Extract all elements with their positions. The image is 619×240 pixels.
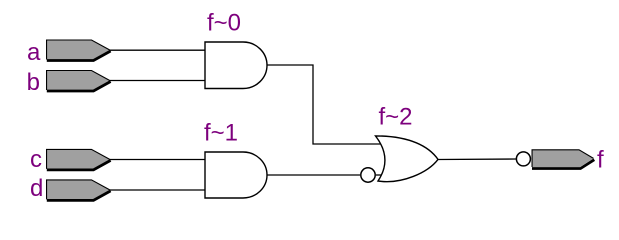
svg-text:c: c [30, 146, 42, 173]
svg-text:f~2: f~2 [379, 104, 413, 131]
input pin c [47, 149, 111, 170]
wire f~2 to output bubble [438, 158, 517, 161]
svg-text:b: b [27, 69, 40, 96]
svg-text:f~0: f~0 [207, 10, 241, 37]
input pin b [47, 71, 111, 92]
wire a to f~0 [110, 49, 205, 51]
output pin f [532, 150, 594, 169]
and gate f~0 [205, 42, 267, 89]
inversion bubble on f~2 lower input [361, 168, 375, 182]
wire d to f~1 [110, 189, 205, 191]
or gate f~2 [376, 136, 439, 182]
svg-text:a: a [27, 39, 41, 66]
wire f~1 to input bubble [267, 174, 360, 176]
and gate f~1 [205, 152, 267, 198]
wire c to f~1 [110, 159, 205, 161]
wire f~0 to f~2 [267, 65, 382, 144]
svg-text:f~1: f~1 [204, 120, 238, 147]
stub bubble to f~2 [376, 174, 382, 176]
input pin d [47, 180, 111, 201]
svg-text:d: d [30, 175, 43, 202]
wire b to f~0 [110, 80, 205, 82]
output inversion bubble [516, 152, 530, 166]
svg-text:f: f [597, 147, 604, 174]
input pin a [47, 40, 111, 61]
